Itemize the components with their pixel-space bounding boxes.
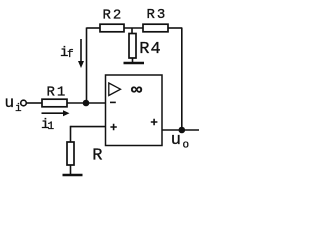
svg-text:∞: ∞ — [131, 80, 143, 99]
wire: R3 to right corner — [168, 27, 182, 29]
op-amp U1 (rectangle body) — [106, 75, 163, 146]
svg-text:o: o — [183, 140, 190, 152]
svg-text:R1: R1 — [47, 85, 68, 101]
input terminal (open circle) — [21, 100, 27, 106]
wire: terminal to R1 — [27, 102, 43, 104]
svg-text:R3: R3 — [147, 7, 168, 23]
wire: R bottom stub to ground — [70, 165, 72, 175]
op-amp plus (non-inverting input marker) — [110, 124, 116, 130]
wire: stub from top wire down to R4 — [131, 28, 133, 34]
node A (junction dot) — [83, 100, 90, 107]
wire: non-inverting input leftward — [71, 126, 106, 128]
wire: down to resistor R — [70, 126, 72, 142]
svg-text:R4: R4 — [139, 40, 161, 59]
resistor R — [67, 142, 74, 165]
output node (junction dot) — [179, 127, 186, 134]
current arrow if — [78, 39, 84, 68]
wire: top wire, corner to R2 — [87, 27, 101, 29]
resistor R4 — [129, 34, 136, 59]
wire: R2 to R3 with R4 junction — [124, 27, 143, 29]
wire: R4 bottom stub to ground — [132, 58, 134, 63]
current arrow i1 — [42, 110, 70, 116]
svg-text:R2: R2 — [103, 8, 124, 24]
svg-text:i: i — [15, 103, 22, 115]
wire: R1 to node A — [67, 102, 86, 104]
wire: right vertical from top corner down to output node — [181, 28, 183, 131]
op-amp triangle symbol — [109, 83, 121, 96]
resistor R3 — [143, 24, 168, 32]
ground under R — [63, 174, 83, 176]
resistor R2 — [100, 24, 124, 32]
ground under R4 — [124, 62, 145, 64]
op-amp plus (output polarity marker) — [151, 119, 158, 126]
svg-text:u: u — [171, 131, 181, 150]
wire: feedback vertical from top wire down to node A — [86, 28, 88, 104]
svg-text:u: u — [5, 94, 15, 112]
svg-text:1: 1 — [48, 121, 55, 133]
resistor R1 — [42, 99, 67, 107]
svg-text:f: f — [67, 49, 74, 61]
op-amp minus (inverting input marker) — [110, 101, 116, 103]
svg-text:R: R — [92, 147, 102, 166]
wire: op-amp output to node — [162, 129, 199, 131]
wire: node A to op-amp inverting input — [86, 102, 106, 104]
